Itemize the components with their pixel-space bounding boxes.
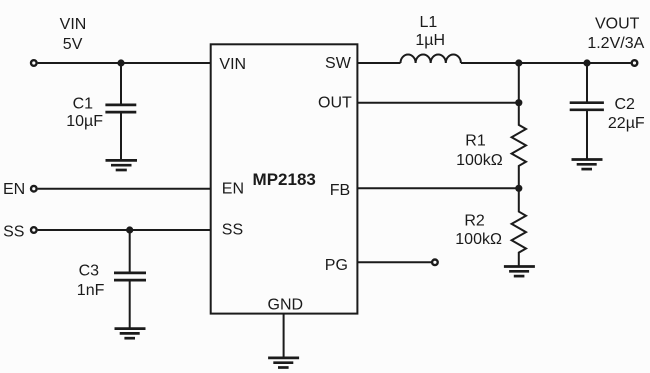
U1 pin VIN	[219, 56, 246, 73]
wire VIN input	[38, 62, 211, 64]
wire OUT pin	[357, 102, 518, 104]
svg-text:1.2V/3A: 1.2V/3A	[587, 35, 644, 52]
C2 value label	[608, 96, 645, 132]
R2 value label	[455, 212, 502, 248]
svg-text:C3: C3	[79, 263, 100, 280]
svg-text:100kΩ: 100kΩ	[455, 231, 502, 248]
ground (C1)	[106, 160, 138, 170]
svg-text:1nF: 1nF	[77, 282, 105, 299]
svg-text:10µF: 10µF	[66, 113, 103, 130]
wire FB pin	[357, 187, 518, 189]
svg-text:EN: EN	[222, 180, 244, 197]
terminal VOUT	[632, 60, 638, 66]
L1 value label	[415, 14, 445, 49]
svg-text:VIN: VIN	[60, 16, 87, 33]
wire SW output	[357, 62, 400, 64]
junction OUT / R1	[515, 99, 522, 106]
terminal EN	[31, 186, 37, 192]
wire GND pin	[283, 314, 285, 358]
resistor R2	[512, 188, 526, 266]
U1 pin GND	[268, 296, 304, 313]
terminal SS	[31, 227, 37, 233]
node VIN label	[60, 16, 87, 53]
resistor R1	[512, 103, 526, 189]
svg-text:SS: SS	[3, 224, 24, 241]
svg-text:1µH: 1µH	[415, 32, 445, 49]
wire SS input	[38, 229, 211, 231]
U1 pin FB	[330, 182, 350, 199]
svg-text:PG: PG	[325, 257, 348, 274]
wire PG pin	[357, 261, 431, 263]
svg-text:OUT: OUT	[318, 94, 352, 111]
U1 pin SW	[325, 55, 352, 72]
svg-text:SW: SW	[325, 55, 352, 72]
capacitor C1	[105, 63, 136, 160]
node EN label	[3, 181, 25, 198]
junction VIN/C1	[117, 59, 124, 66]
junction SS/C3	[126, 226, 133, 233]
svg-text:FB: FB	[330, 182, 350, 199]
svg-text:SS: SS	[222, 221, 243, 238]
ground (R2)	[504, 267, 535, 277]
R1 value label	[456, 133, 503, 169]
U1 pin SS	[222, 221, 243, 238]
ground (GND pin)	[268, 358, 299, 368]
svg-text:5V: 5V	[63, 36, 83, 53]
svg-text:100kΩ: 100kΩ	[456, 152, 503, 169]
ground (C2)	[572, 160, 603, 170]
junction VOUT / C2	[583, 59, 590, 66]
capacitor C3	[114, 230, 146, 329]
C1 value label	[66, 96, 103, 131]
svg-text:C2: C2	[614, 96, 635, 113]
U1 pin OUT	[318, 94, 352, 111]
U1 pin PG	[325, 257, 348, 274]
U1 label MP2183	[253, 170, 316, 189]
svg-text:R2: R2	[464, 212, 485, 229]
svg-text:22µF: 22µF	[608, 115, 645, 132]
C3 value label	[77, 263, 105, 299]
node SS label	[3, 224, 24, 241]
inductor L1	[401, 54, 461, 63]
wire EN input	[38, 188, 211, 190]
svg-text:R1: R1	[465, 133, 486, 150]
wire L1 to VOUT	[461, 62, 631, 64]
IC U1 MP2183 body	[211, 44, 358, 313]
node VOUT label	[587, 16, 644, 52]
svg-text:EN: EN	[3, 181, 25, 198]
svg-text:C1: C1	[73, 96, 94, 113]
terminal VIN	[31, 60, 37, 66]
wire SW branch down to OUT node	[518, 63, 520, 103]
terminal PG	[432, 260, 438, 266]
svg-text:VIN: VIN	[219, 56, 246, 73]
svg-text:L1: L1	[420, 14, 438, 31]
svg-text:MP2183: MP2183	[253, 170, 316, 189]
junction SW line / R1 branch	[515, 59, 522, 66]
capacitor C2	[570, 63, 604, 160]
svg-text:GND: GND	[268, 296, 304, 313]
U1 pin EN	[222, 180, 244, 197]
junction FB / R1 / R2	[515, 185, 522, 192]
ground (C3)	[115, 329, 146, 339]
svg-text:VOUT: VOUT	[595, 16, 640, 33]
